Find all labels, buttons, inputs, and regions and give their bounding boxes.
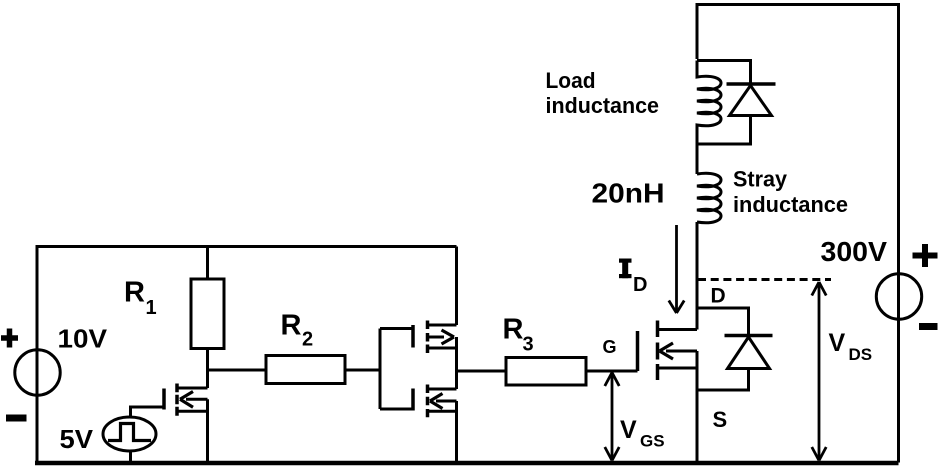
svg-text:300V: 300V: [821, 236, 888, 267]
svg-text:inductance: inductance: [733, 192, 848, 217]
diode D1 body diode cathode bar: [725, 334, 773, 338]
diode D2 freewheel cathode bar: [727, 82, 776, 86]
resistor R2: [266, 356, 345, 384]
freewheel branch bottom wire: [697, 116, 751, 145]
wire drain rail top section: [696, 3, 699, 59]
transistor Q1 source lead: [658, 367, 698, 370]
svg-text:DS: DS: [849, 345, 873, 364]
wire drain rail above MOSFET: [696, 222, 699, 330]
load branch top wire: [697, 61, 751, 84]
wire bracket top horizontal to upper gate: [380, 327, 413, 330]
wire R1 bottom to M1 drain and ground node column: [206, 349, 209, 463]
label + of 300V source: [913, 244, 938, 267]
resistor R1: [191, 279, 224, 349]
transistor Q1 channel segments: [656, 321, 660, 381]
wire driver output to R3: [457, 370, 507, 373]
wire R3 to power MOSFET gate: [586, 370, 638, 373]
transistor Q3 drain lead: [428, 388, 457, 391]
svg-text:R: R: [124, 277, 145, 309]
transistor Q2 drain lead: [428, 324, 457, 327]
arrow VDS measurement: [818, 284, 821, 460]
body diode branch wires: [697, 308, 749, 390]
inductor L1 load inductance coil: [697, 61, 721, 145]
wire bottom ground rail: [35, 461, 899, 466]
wire top rail of power loop: [697, 3, 899, 6]
transistor Q2 upper driver MOSFET gate bar: [411, 325, 415, 348]
inductor L2 stray inductance coil: [697, 173, 721, 222]
transistor M1 gate bar: [162, 389, 166, 410]
svg-text:D: D: [711, 285, 726, 308]
transistor M1 source arrow pointing left: [186, 398, 208, 401]
transistor Q2 bottom lead: [428, 347, 457, 350]
diode D1 body diode triangle: [728, 337, 770, 369]
wire R1 top stem: [206, 247, 209, 280]
dashed line drain potential: [698, 278, 831, 281]
transistor M1 drain lead: [177, 387, 208, 390]
pulse source V2 5V: [103, 417, 156, 451]
wire right rail: [897, 3, 900, 463]
svg-text:2: 2: [302, 329, 313, 351]
wire drain rail between branches: [696, 144, 699, 174]
wire source rail below MOSFET: [696, 351, 699, 463]
arrow VGS measurement: [611, 374, 614, 460]
svg-text:S: S: [713, 407, 728, 432]
label - of 10V source: [6, 415, 27, 422]
resistor R3: [506, 358, 586, 386]
svg-text:V: V: [829, 329, 846, 357]
current arrow ID: [675, 225, 678, 311]
wire driver right vertical rail: [455, 247, 458, 463]
wire left rail: [36, 245, 39, 463]
wire driver input bracket vertical: [379, 329, 382, 410]
label + of 10V source: [1, 329, 18, 348]
svg-text:10V: 10V: [58, 324, 108, 354]
transistor M1 bottom source lead: [177, 410, 208, 413]
svg-text:V: V: [620, 416, 637, 444]
transistor Q3 lower driver MOSFET gate bar: [411, 389, 415, 411]
svg-text:Load: Load: [546, 68, 596, 93]
transistor Q1 drain lead: [658, 328, 698, 331]
transistor Q1 body arrow pointing left: [666, 350, 697, 353]
wire R2 to driver input bracket: [345, 369, 380, 372]
svg-text:G: G: [603, 337, 617, 357]
wire 5V source to M1 gate: [131, 407, 165, 417]
svg-text:R: R: [503, 314, 524, 346]
voltage source V1 10V: [15, 350, 60, 395]
svg-text:1: 1: [146, 297, 157, 319]
label ID: [619, 259, 632, 279]
transistor Q1 power MOSFET gate bar: [636, 331, 640, 371]
svg-text:3: 3: [523, 334, 534, 356]
wire node junction to R2: [208, 369, 267, 372]
transistor Q3 bottom lead: [428, 410, 457, 413]
transistor Q3 channel segments: [426, 385, 430, 418]
svg-text:GS: GS: [640, 432, 665, 451]
transistor M1 channel segments: [175, 384, 179, 416]
svg-text:20nH: 20nH: [592, 178, 665, 209]
svg-text:5V: 5V: [60, 424, 94, 454]
label - of 300V source: [919, 323, 938, 330]
voltage source V3 300V: [876, 274, 921, 319]
svg-text:D: D: [633, 274, 647, 296]
svg-text:R: R: [281, 310, 302, 342]
wire bracket bottom horizontal to lower gate: [380, 408, 413, 411]
pulse waveform symbol: [108, 424, 151, 441]
transistor Q2 channel segments: [426, 321, 430, 354]
transistor Q2 source lead with arrow pointing right: [428, 336, 445, 339]
svg-text:Stray: Stray: [733, 167, 788, 192]
wire top rail of driver loop: [37, 245, 457, 248]
wire 5V source bottom stem: [129, 451, 132, 463]
svg-text:inductance: inductance: [546, 93, 660, 118]
diode D2 freewheel triangle: [730, 86, 772, 116]
transistor Q3 source lead with arrow pointing left: [436, 400, 457, 403]
